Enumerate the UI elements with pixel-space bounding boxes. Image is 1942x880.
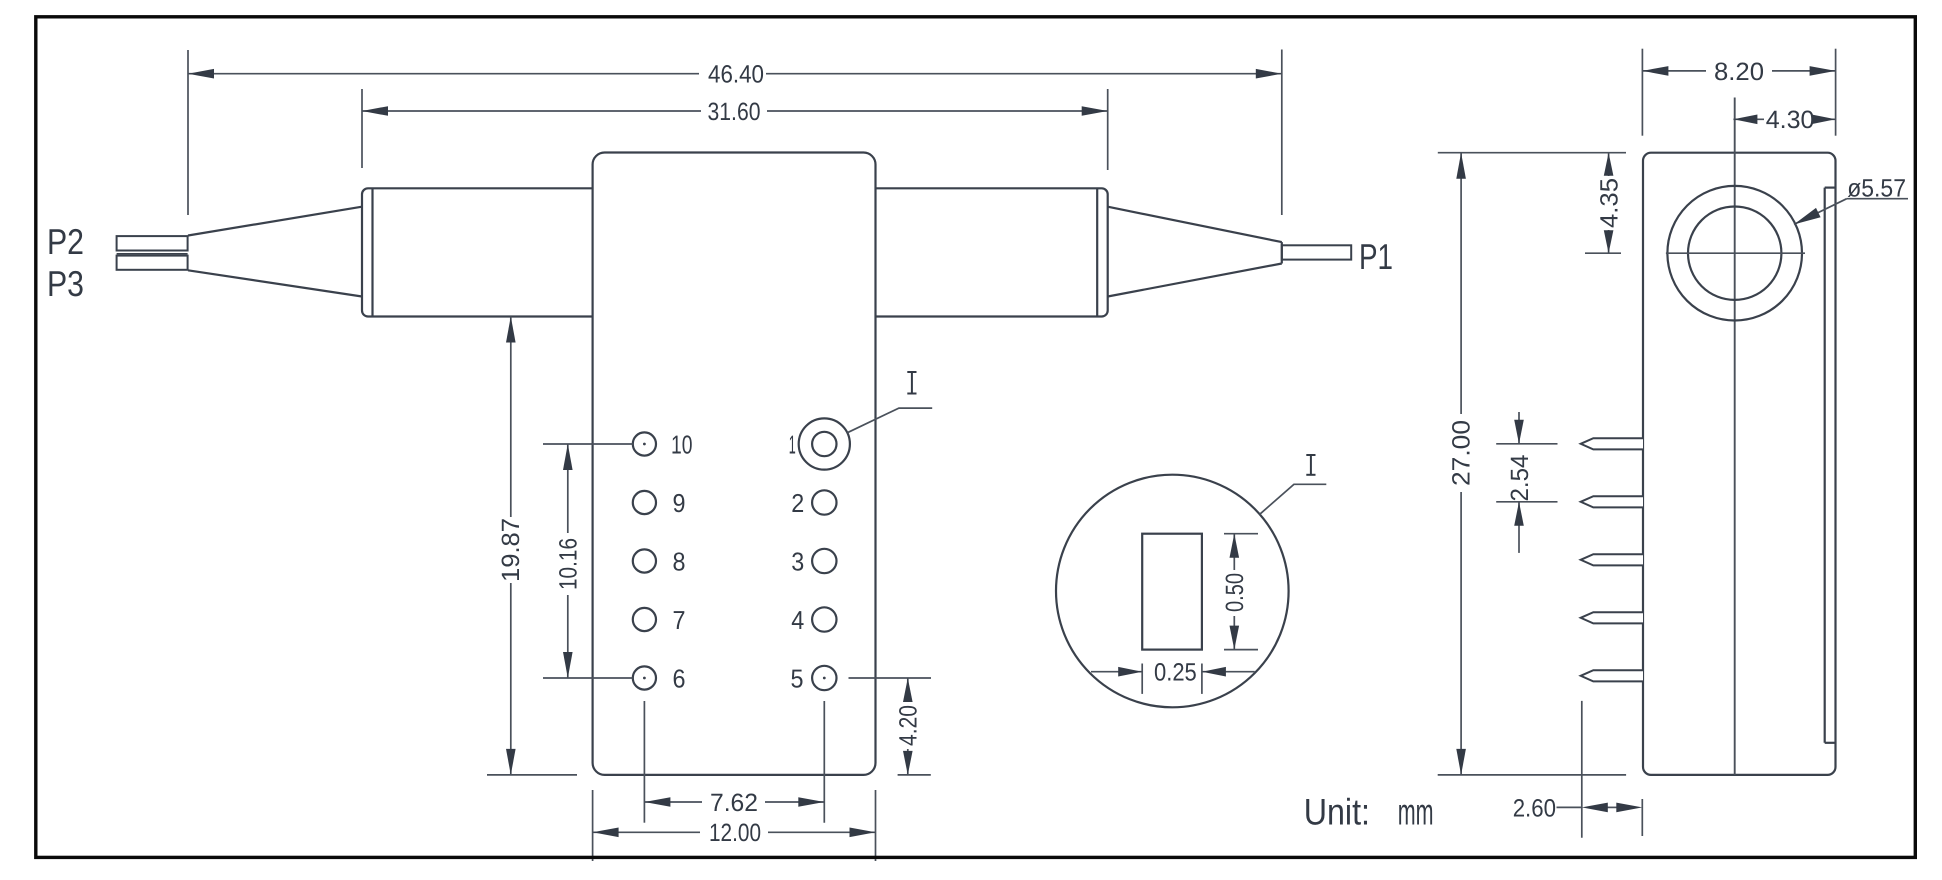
side view body [1643, 153, 1836, 775]
svg-text:ø5.57: ø5.57 [1847, 175, 1906, 203]
tube right end-cap inner line [1096, 188, 1098, 316]
dimension 0.25 arrows [1118, 667, 1142, 677]
dimension 12.00 line [593, 831, 700, 833]
svg-text:7: 7 [673, 605, 686, 635]
dimension 19.87 arrows [506, 317, 516, 343]
dimension 4.30 line [1733, 118, 1764, 120]
svg-text:12.00: 12.00 [709, 819, 761, 847]
svg-text:mm: mm [1398, 791, 1434, 832]
left taper cone [188, 207, 362, 297]
svg-text:3: 3 [791, 546, 804, 576]
pin holes right column (1,2,3,4,5) with pin-1 counterbore [799, 418, 850, 690]
dimension 12.00 extension lines [592, 790, 594, 861]
svg-text:8: 8 [673, 546, 686, 576]
dimension 2.54 arrows [1514, 420, 1524, 444]
dimension 4.20 line [907, 678, 909, 701]
dimension 46.40 extension lines [187, 50, 189, 215]
dimension 0.25 extension stubs [1141, 664, 1143, 694]
svg-text:1: 1 [789, 429, 796, 459]
dimension 4.30 arrows [1733, 115, 1757, 125]
dimension 0.50 arrows [1230, 534, 1240, 558]
dimension 4.35 line [1608, 153, 1610, 176]
svg-text:6: 6 [673, 663, 686, 693]
svg-text:P1: P1 [1359, 236, 1393, 277]
svg-text:7.62: 7.62 [710, 789, 758, 817]
center dot pin 10 [643, 443, 646, 446]
leader line detail circle to label I [1260, 484, 1327, 514]
detail circle I [1056, 475, 1289, 708]
side view vertical center line [1734, 98, 1736, 775]
leader line pin 1 to detail I [847, 408, 932, 433]
svg-text:46.40: 46.40 [708, 61, 764, 89]
dimension 27.00 line [1460, 153, 1462, 414]
dimension 7.62 line [644, 801, 702, 803]
leader arrow ø5.57 [1794, 208, 1821, 225]
boss horizontal center line [1666, 252, 1805, 254]
svg-text:P2: P2 [47, 221, 84, 262]
side view boss outer circle ø5.57 [1667, 186, 1802, 321]
dimension 4.20 extension lines [849, 677, 932, 679]
detail slot rectangle [1142, 534, 1202, 650]
svg-text:0.25: 0.25 [1154, 659, 1197, 687]
svg-text:31.60: 31.60 [708, 98, 761, 126]
detail label I (near pin 1) [907, 372, 916, 394]
front view main body [593, 153, 876, 775]
svg-text:2.54: 2.54 [1506, 454, 1534, 501]
fiber stub P1 [1282, 245, 1351, 259]
dimension 10.16 extension lines [543, 443, 633, 445]
dimension 31.60 line [362, 110, 701, 112]
svg-text:P3: P3 [47, 263, 84, 304]
svg-text:8.20: 8.20 [1714, 58, 1764, 86]
leader line ø5.57 [1794, 199, 1847, 225]
dimension 46.40 arrows [188, 69, 214, 79]
dimension 10.16 line [567, 444, 569, 533]
svg-text:19.87: 19.87 [497, 518, 525, 582]
center dot pin 6 [643, 677, 646, 680]
side view boss inner circle [1688, 207, 1781, 300]
side view right lip line [1824, 188, 1826, 743]
svg-text:10: 10 [671, 429, 693, 459]
dimension 0.50 ticks [1224, 533, 1258, 535]
dimension 46.40 line [188, 73, 699, 75]
dimension 2.60 arrows [1582, 803, 1608, 813]
dimension 2.60 extension lines [1581, 701, 1583, 838]
svg-text:9: 9 [673, 488, 686, 518]
svg-text:2: 2 [791, 488, 804, 518]
dimension 31.60 extension lines [361, 89, 363, 168]
svg-text:0.50: 0.50 [1221, 573, 1249, 612]
fiber stub P3 [117, 256, 188, 270]
dimension 2.54 ticks [1496, 443, 1557, 445]
detail label I (detail view) [1306, 455, 1315, 475]
svg-text:5: 5 [791, 663, 804, 693]
svg-text:4: 4 [791, 605, 804, 635]
right taper cone [1108, 207, 1282, 297]
dimension 31.60 arrows [362, 106, 388, 116]
pin holes left column (10,9,8,7,6) [633, 432, 656, 689]
dimension 2.54 tails [1518, 412, 1520, 444]
dimension 0.50 line [1233, 534, 1235, 570]
center dot pin 5 [823, 677, 826, 680]
dimension 12.00 arrows [593, 828, 619, 838]
dimension 4.35 bottom tick [1585, 252, 1621, 254]
dimension 0.25 line [1091, 671, 1142, 673]
dimension 7.62 arrows [644, 797, 670, 807]
side view pins (5) [1581, 438, 1643, 681]
dimension 27.00 extension lines [1438, 152, 1626, 154]
dimension 8.20 arrows [1642, 66, 1668, 76]
fiber stub P2 [117, 236, 188, 250]
svg-text:4.35: 4.35 [1595, 178, 1623, 228]
dimension 4.35 arrows [1604, 153, 1614, 176]
dimension 4.20 arrows [903, 678, 913, 702]
dimension 8.20 extension lines [1641, 49, 1643, 136]
svg-text:2.60: 2.60 [1513, 794, 1556, 822]
svg-text:4.30: 4.30 [1766, 106, 1815, 134]
svg-text:27.00: 27.00 [1448, 420, 1476, 486]
svg-text:4.20: 4.20 [895, 705, 923, 746]
dimension 19.87 line [510, 317, 512, 518]
front view horizontal tube (31.60 barrel) [362, 188, 1108, 316]
svg-text:10.16: 10.16 [555, 538, 583, 590]
dimension 2.60 line [1557, 806, 1582, 808]
dimension 19.87 bottom tick [487, 774, 577, 776]
tube left end-cap inner line [371, 188, 373, 316]
dimension 10.16 arrows [563, 444, 573, 470]
dimension 27.00 arrows [1456, 153, 1466, 179]
svg-text:Unit:: Unit: [1304, 791, 1370, 832]
dimension 7.62 extension lines [643, 701, 645, 823]
dimension 8.20 line [1642, 70, 1706, 72]
fiber mid line [117, 253, 188, 255]
